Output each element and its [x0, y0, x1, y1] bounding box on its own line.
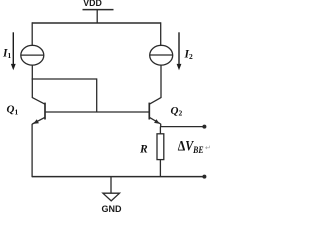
wire Q1 emitter to ground rail — [31, 124, 33, 177]
transistor Q1 — [32, 98, 45, 124]
svg-text:Q2: Q2 — [171, 105, 183, 118]
wire diode-connect horizontal — [32, 78, 97, 80]
current source I1 — [21, 45, 44, 65]
I2 arrow — [177, 32, 182, 70]
node terminal bottom — [202, 175, 206, 179]
current source I2 — [150, 45, 173, 65]
svg-text:VDD: VDD — [83, 0, 102, 8]
wire diode-connect vertical — [96, 78, 98, 112]
wire base rail — [45, 111, 149, 113]
wire top rail — [32, 22, 161, 24]
VDD power bar — [83, 9, 114, 11]
ground — [103, 177, 120, 201]
wire rail to I1 source — [31, 22, 33, 45]
svg-text:ΔVBE: ΔVBE — [178, 137, 204, 155]
svg-text:GND: GND — [102, 204, 123, 213]
wire emitter node to resistor — [159, 127, 161, 134]
wire Q2 emitter node corner — [161, 124, 205, 127]
svg-text:I2: I2 — [184, 48, 193, 61]
transistor Q2 — [149, 98, 161, 124]
svg-text:↵: ↵ — [205, 144, 211, 152]
wire I2 source to Q2 collector — [160, 65, 162, 98]
node terminal top — [202, 125, 206, 129]
wire I1 source to Q1 collector — [31, 65, 33, 98]
svg-text:I1: I1 — [2, 47, 11, 60]
wire bottom rail — [32, 176, 204, 178]
wire resistor to ground rail — [159, 160, 161, 177]
resistor R — [157, 134, 164, 160]
svg-text:Q1: Q1 — [7, 104, 19, 117]
I1 arrow — [11, 32, 16, 70]
VDD stem wire — [96, 10, 98, 23]
svg-text:R: R — [139, 144, 148, 156]
wire rail to I2 source — [160, 22, 162, 45]
